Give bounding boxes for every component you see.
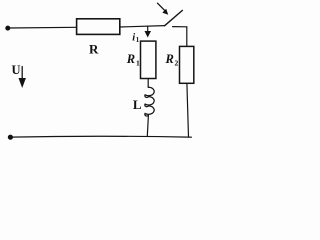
svg-text:2: 2 xyxy=(175,58,179,67)
svg-text:1: 1 xyxy=(136,36,140,44)
svg-text:R: R xyxy=(126,52,135,66)
svg-text:1: 1 xyxy=(136,58,140,67)
svg-text:U: U xyxy=(12,63,21,77)
svg-text:L: L xyxy=(133,97,142,112)
svg-text:R: R xyxy=(165,52,174,66)
svg-text:R: R xyxy=(89,42,99,57)
